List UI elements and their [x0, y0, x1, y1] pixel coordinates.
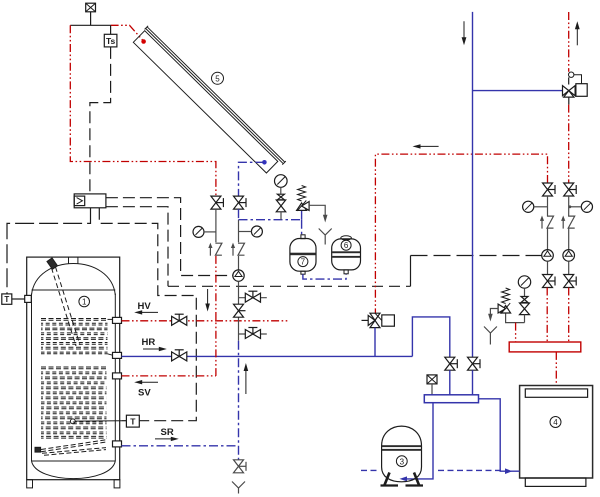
sensor T left box [2, 294, 32, 304]
boiler 4 [520, 386, 593, 487]
arrow SV left [134, 380, 158, 384]
tank stub HV [113, 317, 122, 323]
drain funnel bottom [232, 482, 245, 494]
tank stub SR [113, 441, 122, 447]
fill valve upper with cap [239, 291, 267, 302]
check valve B [561, 216, 575, 229]
svg-text:3: 3 [400, 457, 405, 466]
svg-text:HR: HR [142, 337, 156, 348]
wire SR line (blue dash-dot) [122, 445, 238, 447]
controller box [74, 194, 106, 208]
wire segments to pumps [547, 229, 549, 250]
solar collector 5 [133, 26, 285, 173]
tank sensor pocket (tilted) [47, 258, 80, 346]
pump solar P1 [233, 256, 244, 281]
wire heating flow red loop [375, 154, 547, 313]
gauge fittings heating [520, 297, 530, 323]
wire hot water down to valve [568, 105, 570, 183]
label 1 [79, 296, 90, 307]
pump heating A [542, 250, 554, 262]
thermometer A [523, 201, 548, 212]
junction arrow cold feed [505, 468, 512, 474]
wire safety blowoff [309, 205, 327, 222]
valve HR [172, 350, 187, 361]
fill valve lower with cap [239, 328, 267, 339]
thermometer solar flow [193, 226, 216, 237]
arrow down solar supply [205, 289, 210, 312]
wire manifold to boiler (blue) [479, 399, 520, 471]
arrow down blue riser [462, 21, 467, 45]
wires to red manifold [546, 288, 548, 343]
wire SV line (red) [122, 375, 216, 377]
manometer heating [518, 276, 530, 297]
svg-text:7: 7 [301, 258, 306, 267]
upper heating coil [41, 319, 113, 356]
thermometer solar return [239, 226, 263, 237]
arrow HV left [134, 310, 158, 314]
wire solar flow to collector (red) [111, 25, 144, 41]
svg-text:4: 4 [553, 418, 558, 427]
wire HR line (blue) [122, 355, 413, 357]
wire heating flow blue path [374, 328, 376, 357]
wire solar flow riser (red dash-dot) [70, 25, 216, 196]
check valve A [540, 216, 554, 229]
wire solar return from collector (blue dash-dot) [239, 162, 265, 196]
arrow HR right [143, 347, 167, 351]
red heating manifold [509, 342, 581, 352]
wire segments below pumps [547, 261, 549, 274]
tank sensor bulb and line [70, 419, 121, 424]
check valve solar flow [208, 243, 222, 256]
wire cold feed dashed right [438, 469, 504, 471]
svg-text:SR: SR [161, 427, 174, 438]
svg-text:T: T [4, 295, 9, 304]
wire safety group to manifold [506, 314, 525, 323]
sensor cable Ts to controller [90, 47, 111, 194]
arrow up solar return [244, 363, 249, 394]
blowoff funnel [319, 229, 332, 245]
tank stub HR [113, 352, 122, 358]
motorized 3-way valve heating [362, 313, 395, 327]
wire expansion connection (blue dash-dot) [239, 219, 302, 221]
svg-text:Ts: Ts [106, 36, 116, 46]
valve solar flow column [211, 196, 224, 209]
valve B2 [564, 275, 577, 288]
check valve vertical solar return [234, 304, 246, 317]
pressure vessel 3 [381, 426, 424, 485]
cable controller to solar pump [106, 198, 232, 276]
wire manifold to boiler [555, 352, 557, 386]
svg-text:T: T [130, 416, 136, 426]
thermometer B [569, 201, 593, 212]
wire solar return segment [238, 209, 240, 220]
valve before manifold 1 [445, 357, 458, 370]
wire solar flow top horizontal (black part) [70, 24, 110, 26]
label 5 [212, 72, 224, 84]
wire safety blowoff heating [488, 309, 498, 322]
safety valve heating (spring) [498, 288, 511, 314]
valve A2 [543, 275, 556, 288]
blue cold manifold [424, 395, 478, 403]
wire vessel link (blue dash-dot) [303, 274, 346, 279]
svg-text:HV: HV [138, 301, 152, 312]
svg-text:6: 6 [344, 241, 349, 250]
wire cold feed dashed left [361, 469, 379, 471]
mixing valve sensor circle [569, 72, 582, 85]
svg-text:5: 5 [215, 74, 220, 83]
expansion vessel 7 [290, 235, 316, 274]
blowoff funnel heating [484, 327, 497, 345]
main riser blue cold water [472, 12, 474, 357]
gauge shutoff fittings [276, 187, 285, 219]
cable controller to heating pump [106, 207, 168, 287]
manometer solar [275, 175, 288, 188]
cable controller to tank sensor T lower [99, 208, 196, 421]
air vent on manifold [427, 375, 437, 395]
valve before manifold 2 [468, 357, 481, 370]
storage tank 1 outer shell [27, 257, 120, 488]
drain valve bottom [234, 460, 247, 473]
wire solar flow red lower [215, 256, 217, 376]
tank bottom drain and coil tails [35, 440, 106, 456]
check valve solar return [231, 243, 245, 256]
valve solar return column [234, 196, 247, 209]
arrow left on red loop [413, 144, 439, 148]
wires valves to blue manifold [450, 370, 473, 395]
expansion vessel 6 [332, 236, 361, 274]
thermostatic mixing valve with actuator [473, 84, 588, 105]
wire solar return below pump [238, 281, 240, 340]
valve HV [172, 314, 187, 325]
valve heating flow A [543, 183, 556, 196]
arrow SR right [155, 437, 179, 441]
main riser red hot water [568, 12, 570, 72]
wire manifold to vessel 3 [403, 403, 433, 479]
air vent valve top-left [86, 3, 96, 25]
wire segments below valves A B [547, 196, 549, 217]
wire solar flow column black segment [215, 209, 217, 242]
tank stub SV [113, 373, 122, 379]
node collector flow connection [141, 39, 146, 44]
svg-text:SV: SV [138, 388, 151, 399]
lower solar coil [41, 367, 107, 438]
node collector return connection [262, 160, 267, 165]
arrow up red riser [575, 21, 580, 45]
wire to expansion vessel 7 [301, 211, 303, 220]
sensor Ts [104, 25, 117, 47]
wire solar return blue lower [238, 341, 240, 460]
svg-text:1: 1 [82, 298, 87, 307]
valve heating flow B [564, 183, 577, 196]
wire HV line (red) [122, 320, 290, 322]
pump heating B [563, 250, 575, 262]
sensor T right box [121, 415, 139, 427]
cable controller to tank sensor T upper [7, 208, 91, 294]
safety valve solar (spring) [297, 186, 310, 211]
